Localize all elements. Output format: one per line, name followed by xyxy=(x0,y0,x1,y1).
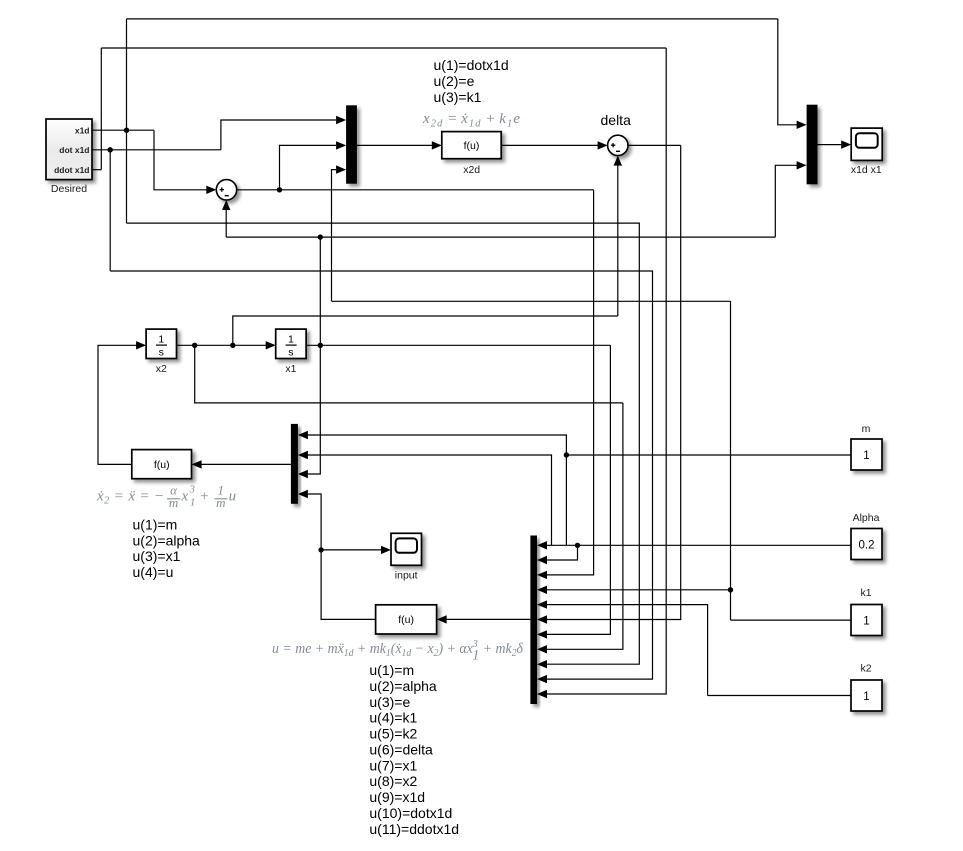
wire x1 up to mux2 in2 xyxy=(775,165,797,237)
wire alpha rail xyxy=(546,544,851,546)
wire u to input scope xyxy=(321,549,381,551)
svg-text:u(8)=x2: u(8)=x2 xyxy=(369,773,417,789)
wire x1 rail xyxy=(226,236,775,238)
wire ddotx1d from Desired xyxy=(92,169,101,171)
svg-text:u(9)=x1d: u(9)=x1d xyxy=(369,789,425,805)
junction k1 branch xyxy=(728,587,733,592)
wire delta down to big mux xyxy=(546,145,681,619)
svg-text:dot x1d: dot x1d xyxy=(59,145,89,155)
constant m xyxy=(851,423,882,470)
function block x2dot xyxy=(132,450,192,479)
svg-text:k2: k2 xyxy=(860,663,871,675)
wire x2 up to sum2b xyxy=(617,165,619,209)
wire alpha riser up xyxy=(307,455,552,545)
svg-text:0.2: 0.2 xyxy=(859,540,875,552)
junction m branch xyxy=(564,452,569,457)
constant k2 xyxy=(851,663,882,712)
sum block sum2 delta xyxy=(608,135,628,155)
wire x2 branch down xyxy=(195,345,623,403)
scope input xyxy=(391,533,422,581)
svg-text:1: 1 xyxy=(288,334,294,346)
wire x1d mid branch down xyxy=(126,130,128,223)
svg-text:x1d x1: x1d x1 xyxy=(851,164,882,176)
svg-text:u(7)=x1: u(7)=x1 xyxy=(369,757,417,773)
wire dotx1d down xyxy=(109,150,111,271)
constant k1 xyxy=(851,587,882,636)
wire x1d up to top rail xyxy=(126,19,128,130)
wire alpha down to mux in2 xyxy=(546,545,578,560)
svg-text:x1: x1 xyxy=(285,363,296,375)
svg-text:1: 1 xyxy=(863,616,869,628)
svg-text:u(1)=m: u(1)=m xyxy=(133,517,178,533)
junction x1d branch xyxy=(124,128,129,133)
sum block sum1 xyxy=(216,180,236,200)
wire m from block xyxy=(566,454,851,456)
wire mux3 to fcn x2dot xyxy=(201,463,291,465)
integrator x2 xyxy=(146,329,176,375)
wire m riser xyxy=(307,435,566,545)
integrator x1 xyxy=(276,329,306,375)
svg-text:u(1)=dotx1d: u(1)=dotx1d xyxy=(434,57,509,73)
wire k1 up to mux1 in3 xyxy=(332,170,337,302)
svg-text:u(6)=delta: u(6)=delta xyxy=(369,742,433,758)
wire x2dot feedback xyxy=(98,345,137,464)
wire x1 down to mux3 in3 xyxy=(307,237,320,474)
wire dotx1d to mux1 in1 xyxy=(221,120,336,150)
annotation big mux signal list xyxy=(369,662,459,837)
annotation equation u xyxy=(272,639,524,664)
wire k1 rail left xyxy=(332,300,731,302)
mux Mux2 xyxy=(807,105,818,185)
svg-text:f(u): f(u) xyxy=(398,614,414,626)
svg-text:k1: k1 xyxy=(860,587,871,599)
wire x1d to sum1 xyxy=(154,130,207,190)
svg-text:input: input xyxy=(395,570,418,582)
mux Mux4 big xyxy=(530,536,537,705)
wire x1d rail to big mux xyxy=(127,223,640,664)
junction x1 out branch xyxy=(318,343,323,348)
wire x1d from Desired xyxy=(92,129,154,131)
mux Mux1 xyxy=(346,105,357,183)
wire x1d down to mux2 in1 xyxy=(778,19,797,125)
svg-text:u(3)=k1: u(3)=k1 xyxy=(434,89,482,105)
wire x1 out of integrator xyxy=(306,344,610,346)
svg-text:u(2)=alpha: u(2)=alpha xyxy=(133,532,201,548)
svg-text:u: u xyxy=(229,488,237,504)
svg-text:u(3)=x1: u(3)=x1 xyxy=(133,548,181,564)
subsystem Desired xyxy=(46,119,92,195)
svg-text:s: s xyxy=(159,346,164,358)
wire u from fcn xyxy=(307,494,376,619)
svg-text:ddot x1d: ddot x1d xyxy=(54,165,89,175)
wire e from sum1 xyxy=(237,189,594,191)
svg-text:u(10)=dotx1d: u(10)=dotx1d xyxy=(369,805,452,821)
svg-text:x: x xyxy=(181,488,189,504)
wire k1 from block xyxy=(731,619,852,621)
wire ddotx1d up xyxy=(100,48,102,170)
constant Alpha xyxy=(851,512,882,560)
junction x2 branch B xyxy=(230,343,235,348)
svg-text:s: s xyxy=(288,346,293,358)
svg-text:m: m xyxy=(169,495,178,510)
wire k2 riser xyxy=(546,605,708,696)
svg-text:x1d: x1d xyxy=(75,125,90,135)
svg-text:x2: x2 xyxy=(156,363,167,375)
svg-text:delta: delta xyxy=(601,112,632,128)
svg-text:u(4)=u: u(4)=u xyxy=(133,564,174,580)
function block x2d xyxy=(442,132,501,177)
svg-text:u(5)=k2: u(5)=k2 xyxy=(369,726,417,742)
junction x1 rail branch xyxy=(318,234,323,239)
svg-text:x2d: x2d xyxy=(463,164,480,176)
wire x2 up to sum2 xyxy=(617,209,619,316)
wire x2 branch up xyxy=(233,316,618,345)
svg-text:1: 1 xyxy=(863,691,869,703)
annotation equation x2dot xyxy=(96,483,236,511)
svg-text:Desired: Desired xyxy=(51,183,87,195)
wire k2 from block xyxy=(708,695,851,697)
wire k1 riser xyxy=(730,301,732,620)
svg-text:u(3)=e: u(3)=e xyxy=(369,694,410,710)
svg-text:f(u): f(u) xyxy=(154,459,170,471)
wire mux1 to fcn x2d xyxy=(357,144,432,146)
wire big mux to fcn u xyxy=(446,618,530,620)
wire ddotx1d rail xyxy=(101,47,666,49)
svg-text:1: 1 xyxy=(863,450,869,462)
wire delta from sum2 xyxy=(628,144,681,146)
svg-text:3: 3 xyxy=(189,485,195,496)
wire x1 down to big mux xyxy=(546,345,610,634)
mux Mux3 xyxy=(291,424,298,504)
svg-text:u(2)=alpha: u(2)=alpha xyxy=(369,678,437,694)
wire e up to mux1 in2 xyxy=(280,145,337,189)
annotation mux1 signal list xyxy=(434,57,509,105)
wire k1 stub to big mux xyxy=(546,589,731,591)
wire dotx1d rail to big mux xyxy=(110,271,652,679)
junction x2 branch A xyxy=(192,343,197,348)
svg-text:f(u): f(u) xyxy=(464,140,480,152)
svg-text:u(2)=e: u(2)=e xyxy=(434,73,475,89)
wire ddotx1d down to big mux xyxy=(546,48,666,694)
svg-text:+: + xyxy=(199,488,209,504)
svg-text:1: 1 xyxy=(158,334,164,346)
wire x2 integrator link xyxy=(177,344,267,346)
wire x1 feedback riser xyxy=(225,210,227,238)
svg-text:Alpha: Alpha xyxy=(853,512,880,524)
wire x2 down to big mux xyxy=(546,403,623,649)
wire x1d top rail xyxy=(127,18,778,20)
junction u scope branch xyxy=(318,547,323,552)
scope x1d x1 xyxy=(851,128,882,176)
junction dotx1d branch xyxy=(108,147,113,152)
wire mux2 to scope xyxy=(818,144,842,146)
annotation mux3 signal list xyxy=(133,517,201,580)
junction e branch xyxy=(277,187,282,192)
svg-text:m: m xyxy=(862,423,871,435)
svg-text:1: 1 xyxy=(190,498,195,509)
svg-text:u(1)=m: u(1)=m xyxy=(369,662,414,678)
svg-text:m: m xyxy=(216,495,225,510)
svg-text:u(11)=ddotx1d: u(11)=ddotx1d xyxy=(369,821,459,837)
annotation equation x2d xyxy=(422,111,521,129)
svg-text:u(4)=k1: u(4)=k1 xyxy=(369,710,417,726)
wire e down to big mux xyxy=(546,190,594,575)
wire dotx1d from Desired xyxy=(92,149,221,151)
function block u xyxy=(376,605,437,634)
wire fcn x2d to sum2 xyxy=(501,144,598,146)
junction alpha branch xyxy=(575,543,580,548)
